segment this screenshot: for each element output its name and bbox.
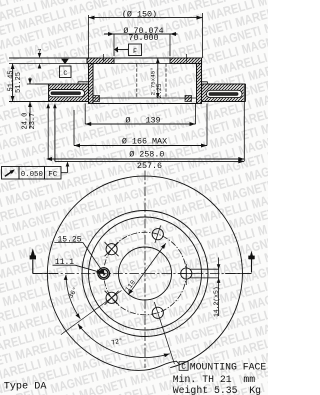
svg-text:Ø 258.0: Ø 258.0 <box>129 150 164 160</box>
svg-text:70.000: 70.000 <box>128 33 158 43</box>
svg-text:51.25: 51.25 <box>15 72 23 93</box>
svg-text:23.7: 23.7 <box>29 113 37 130</box>
svg-text:2.25: 2.25 <box>156 83 163 98</box>
svg-text:F: F <box>133 48 137 55</box>
svg-text:Weight 5.35 Kg: Weight 5.35 Kg <box>173 385 261 395</box>
svg-text:Ø 166 MAX: Ø 166 MAX <box>122 136 167 146</box>
svg-text:FC: FC <box>48 171 58 179</box>
svg-text:MOUNTING FACE: MOUNTING FACE <box>190 361 267 372</box>
svg-text:Type DA: Type DA <box>4 382 48 393</box>
svg-text:257.6: 257.6 <box>137 161 162 171</box>
svg-text:C: C <box>63 70 67 77</box>
svg-text:(Ø 150): (Ø 150) <box>122 9 157 19</box>
svg-text:0.050: 0.050 <box>21 171 43 179</box>
svg-text:C: C <box>181 364 186 372</box>
svg-text:Ø 139: Ø 139 <box>125 115 160 125</box>
svg-text:14.2(x5): 14.2(x5) <box>213 286 220 317</box>
svg-text:Min. TH 21 mm: Min. TH 21 mm <box>173 374 255 385</box>
